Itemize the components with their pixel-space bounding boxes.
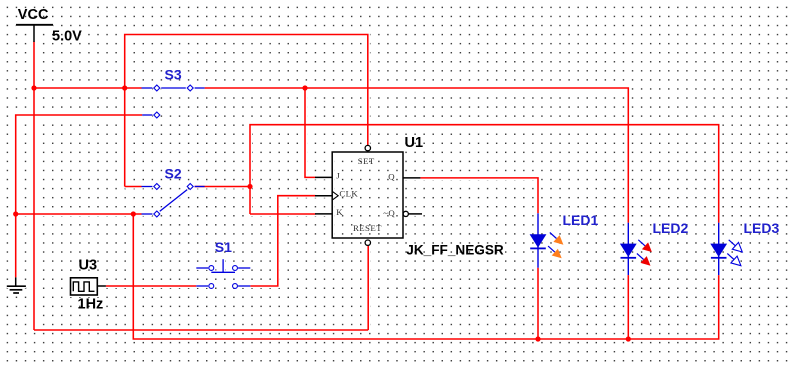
switch S3 — [142, 85, 205, 118]
node junction ground column — [13, 211, 18, 216]
label S2 — [165, 166, 182, 182]
wire U3 to S1 — [106, 285, 196, 287]
pin label J — [336, 170, 340, 180]
wire J input drop — [305, 88, 316, 177]
wire RESET riser — [367, 246, 369, 330]
label S1 — [215, 239, 232, 255]
LED2 diode — [620, 223, 652, 275]
label 5.0V — [52, 29, 82, 45]
svg-text:U3: U3 — [79, 258, 98, 274]
svg-text:CLK: CLK — [339, 189, 358, 199]
pin SET bubble top — [365, 145, 370, 150]
pin label RESET — [353, 223, 382, 233]
clock source U3 — [71, 278, 106, 295]
wire LED1 cathode down — [537, 268, 539, 339]
pin label ~Q — [383, 208, 395, 218]
wire S3 lower throw to ground — [16, 115, 143, 277]
wire SET pull-up loop — [125, 35, 368, 187]
node junction VCC/S3 row — [31, 85, 36, 90]
svg-text:RESET: RESET — [353, 223, 382, 233]
svg-text:U1: U1 — [405, 135, 424, 151]
wire S2 to K node — [195, 186, 250, 188]
svg-text:LED3: LED3 — [744, 220, 780, 236]
label LED2 — [653, 220, 689, 236]
wire RESET bottom rail — [34, 329, 368, 331]
power VCC symbol — [16, 25, 53, 42]
label 1Hz — [78, 297, 104, 313]
label VCC — [18, 7, 49, 23]
svg-text:1Hz: 1Hz — [78, 297, 104, 313]
svg-text:VCC: VCC — [18, 7, 49, 23]
svg-text:SET: SET — [358, 156, 375, 166]
switch S2 — [142, 184, 205, 218]
node junction SET loop — [122, 85, 127, 90]
svg-text:S2: S2 — [165, 166, 182, 182]
wire ground rail to LED cathodes — [133, 214, 718, 339]
label LED3 — [744, 220, 780, 236]
svg-text:Q: Q — [388, 172, 395, 182]
LED1 diode — [530, 213, 564, 267]
node junction LED1 cathode rail — [535, 336, 540, 341]
wire S3 to LED2 anode — [205, 88, 629, 223]
flip-flop U1 box — [315, 152, 422, 238]
svg-text:LED2: LED2 — [653, 220, 689, 236]
wire VCC to S3 — [34, 87, 142, 89]
pin label K — [336, 207, 343, 217]
label U1 — [405, 135, 424, 151]
wire VCC rail vertical — [33, 42, 35, 331]
wire VCC drop to S2 upper — [125, 186, 142, 188]
svg-text:JK_FF_NEGSR: JK_FF_NEGSR — [406, 242, 504, 257]
svg-text:LED1: LED1 — [563, 212, 599, 228]
svg-text:S1: S1 — [215, 239, 232, 255]
svg-text:~Q: ~Q — [383, 208, 395, 218]
label S3 — [165, 67, 182, 83]
svg-text:5.0V: 5.0V — [52, 29, 82, 45]
label JK_FF_NEGSR — [406, 242, 504, 257]
wire underlay masking dots — [7, 25, 719, 339]
wire Q output to LED1 anode — [420, 178, 538, 213]
wire ground row to S2 lower — [16, 213, 142, 215]
svg-text:J: J — [336, 170, 340, 180]
ground — [7, 277, 26, 293]
wire LED2 cathode down — [627, 275, 629, 339]
LED3 diode — [710, 223, 742, 275]
switch S1 pushbutton — [196, 259, 250, 288]
node junction LED2 cathode rail — [626, 336, 631, 341]
pin label CLK — [339, 189, 358, 199]
pin label Q — [388, 172, 395, 182]
wire K node to LED3 anode — [250, 125, 719, 223]
node junction J drop — [302, 85, 307, 90]
svg-text:S3: S3 — [165, 67, 182, 83]
pin label SET — [358, 156, 375, 166]
pin RESET bubble bottom — [365, 240, 370, 245]
wire S1 to CLK — [250, 196, 315, 286]
svg-text:K: K — [336, 207, 343, 217]
label LED1 — [563, 212, 599, 228]
wire K input lead — [250, 213, 316, 215]
node junction K net / S2 — [247, 184, 252, 189]
label U3 — [79, 258, 98, 274]
node junction ground riser — [131, 211, 136, 216]
pin ~Q bubble — [403, 211, 408, 216]
